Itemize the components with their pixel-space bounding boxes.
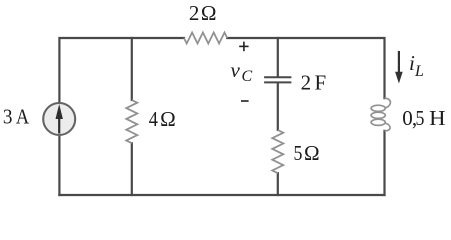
svg-text:5: 5 [294,141,303,165]
svg-text:2: 2 [189,1,200,25]
svg-text:2: 2 [301,70,312,94]
svg-text:Ω: Ω [160,107,176,131]
svg-text:H: H [429,106,445,130]
svg-text:C: C [242,68,253,85]
svg-text:5: 5 [416,106,425,130]
svg-text:L: L [414,63,424,80]
svg-text:A: A [16,105,30,129]
svg-text:F: F [315,70,327,94]
svg-text:3: 3 [3,105,13,129]
svg-text:Ω: Ω [201,1,217,25]
svg-text:Ω: Ω [304,141,320,165]
svg-text:4: 4 [149,107,159,131]
svg-text:v: v [231,58,241,82]
